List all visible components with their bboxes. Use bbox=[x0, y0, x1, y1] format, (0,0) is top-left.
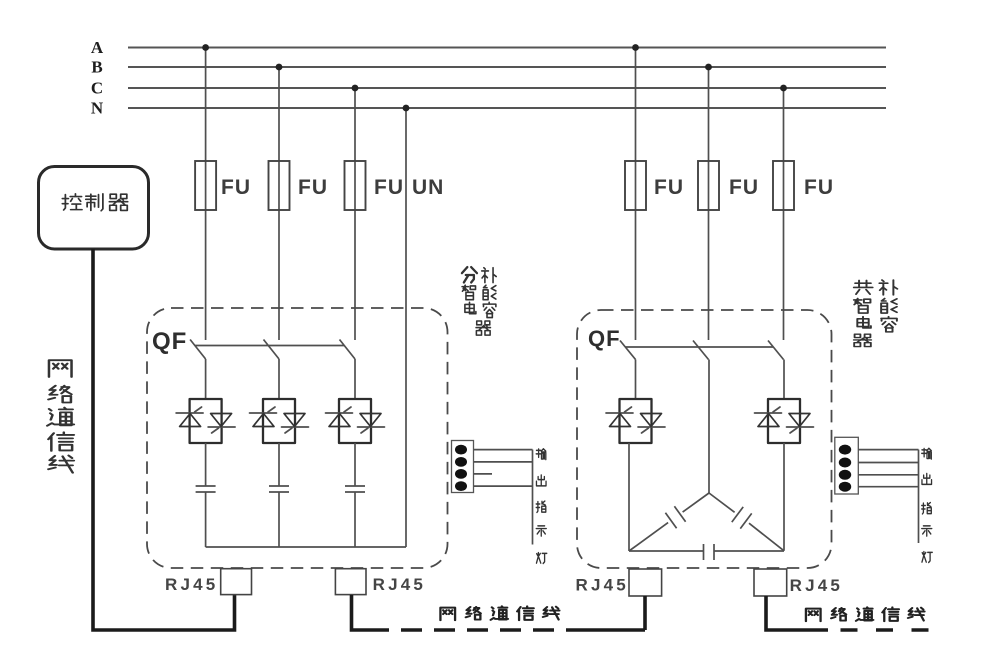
svg-text:B: B bbox=[91, 58, 102, 77]
svg-text:UN: UN bbox=[412, 176, 444, 199]
svg-text:RJ45: RJ45 bbox=[576, 576, 629, 595]
svg-text:FU: FU bbox=[298, 176, 328, 199]
svg-text:FU: FU bbox=[729, 176, 759, 199]
svg-text:N: N bbox=[91, 99, 104, 118]
svg-text:FU: FU bbox=[374, 176, 404, 199]
svg-text:FU: FU bbox=[221, 176, 251, 199]
svg-text:QF: QF bbox=[588, 326, 621, 351]
svg-text:FU: FU bbox=[654, 176, 684, 199]
svg-text:A: A bbox=[91, 38, 104, 57]
svg-text:FU: FU bbox=[804, 176, 834, 199]
svg-text:C: C bbox=[91, 79, 103, 98]
svg-text:RJ45: RJ45 bbox=[790, 576, 843, 595]
svg-text:RJ45: RJ45 bbox=[373, 575, 426, 594]
svg-text:RJ45: RJ45 bbox=[165, 575, 218, 594]
svg-text:QF: QF bbox=[152, 328, 187, 355]
